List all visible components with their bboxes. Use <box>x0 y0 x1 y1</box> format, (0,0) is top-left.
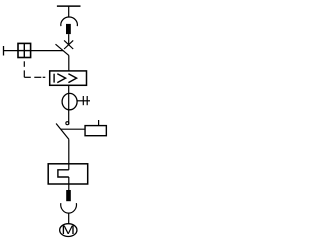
svg-text:M: M <box>61 224 75 238</box>
